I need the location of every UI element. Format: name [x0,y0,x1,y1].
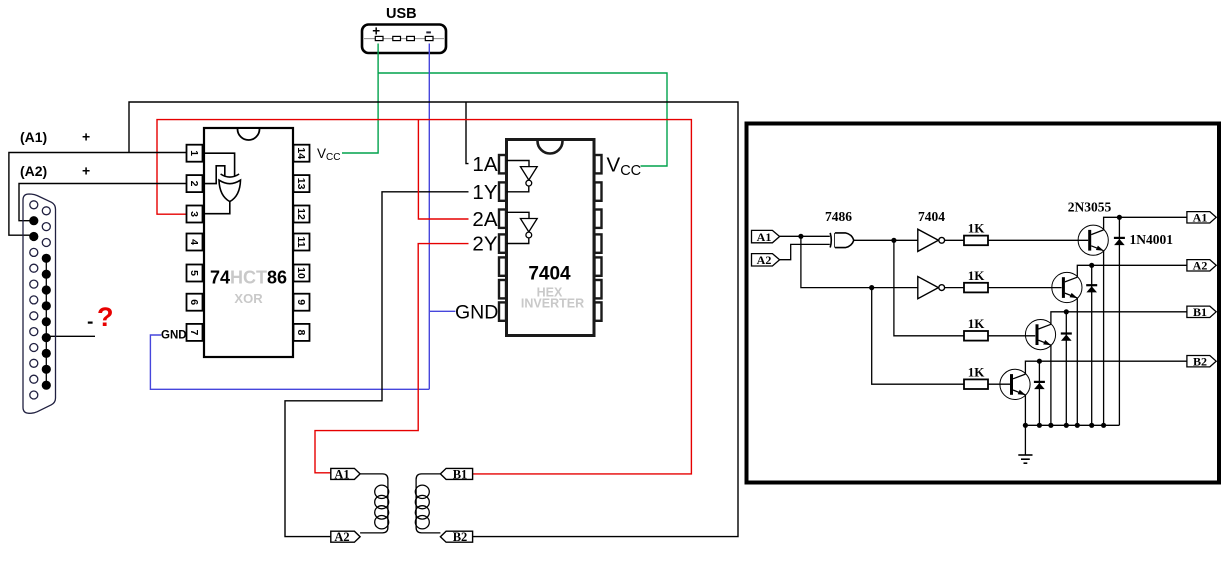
svg-text:6: 6 [188,299,200,305]
svg-text:A1: A1 [1193,211,1208,225]
svg-text:?: ? [97,302,114,332]
tag B2 coil [440,530,472,544]
svg-text:A2: A2 [334,530,349,544]
svg-text:7486: 7486 [825,209,852,224]
USB connector body [362,25,446,54]
svg-text:+: + [82,129,90,145]
wire branch to R4 [872,288,964,385]
diode D4 [1034,361,1045,425]
7404 inverter 1 wires [507,161,530,167]
svg-text:+: + [372,23,380,38]
wire Q3 emitter down [1050,345,1052,425]
DB25 ground bus line [45,258,47,385]
node bus junctions [1023,423,1106,428]
USB minus label [426,31,431,33]
wire xor out to inverter1 [854,239,918,241]
svg-text:B2: B2 [453,530,468,544]
driver sub-schematic frame [747,124,1220,483]
wire blue to 74HCT86 GND [150,335,429,389]
74HCT86 pin numbers right [295,147,307,335]
USB pin 1 [375,36,383,40]
svg-text:14: 14 [295,147,307,159]
svg-text:74HCT86: 74HCT86 [210,268,287,288]
svg-text:1N4001: 1N4001 [1130,232,1174,247]
node A1 branch [798,234,803,239]
resistor R1 1K [964,221,988,246]
transistor Q3 [1025,320,1055,350]
svg-text:USB: USB [386,6,417,22]
wire black pin1 to DB25 pin [9,153,189,236]
svg-text:2: 2 [188,181,200,187]
svg-text:7: 7 [188,329,200,335]
resistor R3 1K [964,316,988,340]
svg-text:1: 1 [188,150,200,156]
wire R4 to Q4 base [988,383,1010,385]
transistor Q4 [1000,369,1030,399]
svg-text:GND: GND [455,302,498,324]
diode D2 [1086,265,1097,425]
diode D3 [1061,312,1072,426]
wire black 1A drop [466,102,469,164]
svg-text:A2: A2 [1193,259,1208,273]
svg-text:9: 9 [295,299,307,305]
svg-text:10: 10 [295,267,307,279]
USB pin 4 [425,36,433,40]
74HCT86 pin numbers left [188,150,200,335]
svg-text:3: 3 [188,211,200,217]
node D4 top [1037,359,1042,364]
IC U2 7404 body [507,140,595,336]
tag B2 output [1187,355,1216,369]
wire inverter1 to R1 [945,239,964,241]
tag A2 coil [331,530,360,544]
svg-text:1K: 1K [968,221,986,236]
wire R3 to Q3 base [988,335,1035,337]
wire xor out branch to R3 [894,240,964,335]
74HCT86 left pin boxes 1-7 [187,145,203,341]
svg-text:8: 8 [295,329,307,335]
svg-text:1A: 1A [472,153,497,176]
svg-text:1K: 1K [968,365,986,380]
ground [1018,425,1032,463]
svg-text:1K: 1K [968,268,986,283]
svg-text:7404: 7404 [918,209,945,224]
wire black DB25 ground query [47,335,95,337]
tag A1 coil [331,467,360,481]
svg-text:12: 12 [295,208,307,220]
7404 notch [538,141,563,154]
7404 left pin stubs [499,155,506,321]
transistor Q1 [1078,225,1108,255]
node D2 top [1089,263,1094,268]
svg-text:2A: 2A [472,208,497,231]
DB25 right column holes [42,207,50,247]
svg-text:2Y: 2Y [472,233,497,256]
resistor R2 1K [964,268,988,292]
tag B1 output [1187,305,1216,319]
wire R1 to Q1 base [988,239,1088,241]
gate U3 7486 xor [830,233,854,248]
wire Q2 collector to A2 out [1077,265,1187,277]
wire red rail pin3 to B1 coil tag [157,120,691,474]
7404 inverter 1 symbol [520,167,537,180]
svg-text:B1: B1 [453,467,468,481]
tag A2 output [1187,259,1216,273]
wire Q2 emitter down [1076,298,1078,425]
tag A2 input [752,253,780,267]
svg-text:INVERTER: INVERTER [521,297,584,311]
wire black pin2 to DB25 pin [19,184,189,221]
wire black top rail from pin1 around to B2 coil tag [129,102,738,537]
node xor out branch [891,238,896,243]
node D3 top [1064,309,1069,314]
74HCT86 internal xor gate wires [203,153,235,176]
wire blue to 7404 GND [429,310,455,312]
IC U1 74HCT86 body [204,128,293,357]
node inverter2 input branch [869,285,874,290]
svg-text:(A2): (A2) [20,163,47,179]
wire A1 to xor [780,235,830,237]
svg-text:(A1): (A1) [20,129,47,145]
USB pin 3 [407,36,415,40]
wire Q4 collector to B2 out [1025,361,1187,374]
wire Q3 collector to B1 out [1051,312,1187,325]
svg-text:2N3055: 2N3055 [1068,200,1112,215]
svg-text:XOR: XOR [234,291,263,306]
gate U4 inverter 1 [918,229,939,251]
resistor R4 1K [964,365,988,389]
7404 right pin stubs [595,155,602,321]
tag A1 input [752,230,780,244]
gate U5 inverter 2 [918,277,939,299]
DB25 pin 3 filled [29,232,38,241]
transistor Q2 [1052,272,1082,302]
svg-text:4: 4 [188,239,200,245]
DB25 pin 2 filled [29,216,38,225]
svg-text:7404: 7404 [528,264,571,285]
svg-text:A2: A2 [757,253,772,267]
tag B1 coil [440,467,472,481]
wire Q1 emitter down [1103,251,1105,426]
coil L2 B-side [416,474,440,533]
7404 inverter 2 symbol [520,219,537,232]
wire ground bus [1025,424,1119,426]
wire A1 branch to inverter2 [801,236,918,287]
svg-text:B1: B1 [1193,305,1207,319]
wire R2 to Q2 base [988,287,1062,289]
diode D1 [1114,217,1125,425]
wire Q1 collector to A1 out [1104,217,1187,230]
wire green USB+ to 74HCT86 VCC [342,44,378,154]
wire red 2A tap [418,120,468,219]
svg-text:A1: A1 [757,230,772,244]
74HCT86 internal xor gate symbol [221,174,240,177]
DB25 left column holes [30,201,38,399]
svg-text:1K: 1K [968,316,986,331]
svg-text:B2: B2 [1193,355,1207,369]
svg-text:1Y: 1Y [472,181,497,204]
DB25 ground pins filled [42,254,51,390]
tag A1 output [1187,211,1216,225]
USB pin 2 [393,36,401,40]
svg-text:GND: GND [161,330,187,342]
label minus query [88,322,93,324]
svg-text:5: 5 [188,270,200,276]
DB25 connector outline [23,194,56,413]
wire black 1Y to A2 coil tag [285,192,469,537]
7404 inverter 2 wires [507,212,530,218]
wire Q4 emitter down [1024,395,1026,425]
wire blue USB- vertical [428,44,430,390]
coil L1 A-side [360,474,388,533]
wire green branch to 7404 VCC [378,73,667,166]
svg-text:11: 11 [295,236,307,247]
svg-text:+: + [82,163,90,179]
wire A2 to xor [780,244,830,259]
74HCT86 right pin boxes 14-8 [294,145,310,341]
node D1 top [1117,215,1122,220]
74HCT86 notch [238,129,260,140]
svg-text:13: 13 [295,178,307,190]
svg-text:A1: A1 [334,467,349,481]
wire red 2Y to A1 coil tag [315,244,469,473]
wire inverter2 to R2 [945,287,964,289]
